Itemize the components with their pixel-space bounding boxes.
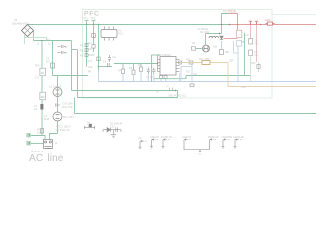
wire: blue link: [181, 66, 192, 68]
resistor R8: [132, 70, 135, 75]
svg-text:TP1: TP1: [83, 17, 88, 21]
wire: filter bottom: [53, 75, 89, 77]
wire: jog blue: [234, 41, 239, 53]
wire: TX loop green rise: [222, 14, 230, 25]
svg-text:RV2: RV2: [35, 65, 40, 68]
wire: D2 to output red: [224, 38, 238, 40]
capacitor C5: [108, 55, 111, 62]
wire: red column: [256, 25, 258, 63]
resistor R13: [192, 47, 196, 50]
svg-text:0R1: 0R1: [225, 51, 230, 54]
wire: red column 2: [250, 25, 252, 39]
svg-text:30: 30: [41, 71, 45, 75]
wire: filter link: [72, 49, 78, 51]
wire: pad L to plug: [31, 136, 45, 140]
wire: TX bottom stub: [221, 25, 223, 34]
resistor R12 orange: [202, 61, 210, 65]
wire: orange bus: [228, 86, 316, 88]
connector pad L: [26, 133, 30, 137]
svg-text:RLY: RLY: [119, 32, 124, 36]
svg-text:PFC: PFC: [84, 11, 100, 18]
wire: R9 blue stub: [140, 72, 142, 82]
wire: under-IC return: [154, 78, 186, 80]
test point TP1: [85, 21, 89, 25]
svg-text:PGND 0V: PGND 0V: [208, 136, 219, 139]
svg-text:R17: R17: [186, 71, 191, 74]
wire: gate bus: [114, 63, 158, 65]
svg-text:R20: R20: [186, 59, 191, 62]
wire: filter drop 1: [71, 41, 73, 91]
wire: output cap blue: [237, 46, 239, 82]
svg-text:J1: J1: [55, 141, 58, 145]
wire: tap horizontal: [99, 66, 113, 68]
wire: return jog: [185, 76, 187, 79]
resistor R5: [97, 57, 100, 61]
wire: main green DC rail: [27, 24, 230, 26]
svg-text:L2 2x6m8: L2 2x6m8: [49, 85, 62, 89]
power symbol GND3: [222, 136, 233, 148]
wire: orange drop: [227, 63, 229, 87]
wire: earth long horizontal: [75, 113, 317, 115]
AC inlet J1: [44, 140, 53, 149]
svg-text:1M: 1M: [88, 42, 91, 45]
power symbol GND1: [150, 136, 159, 148]
svg-text:4A: 4A: [34, 107, 37, 111]
capacitor C8 bulk: [249, 39, 260, 46]
svg-text:C6 C7: C6 C7: [146, 76, 153, 79]
wire: source blue: [221, 41, 223, 49]
svg-text:TP2: TP2: [91, 17, 96, 21]
wire: vcc column green: [98, 25, 100, 71]
wire: blue ground bus: [99, 81, 317, 83]
wire: filter left edge: [52, 41, 54, 76]
net tie NT1: [183, 136, 219, 156]
fuse F2 red: [266, 22, 275, 25]
svg-text:400V: 400V: [265, 18, 271, 22]
svg-text:C12: C12: [88, 66, 93, 69]
wire: Q1 source blue drop: [191, 64, 193, 84]
capacitor CX1: [58, 45, 67, 48]
node gate pin: [157, 63, 158, 64]
capacitor C9 bulk: [249, 50, 260, 57]
node boost junction: [219, 33, 221, 35]
wire: filter drop 2: [77, 50, 79, 98]
resistor R3: [85, 54, 88, 57]
svg-text:C10: C10: [110, 125, 115, 128]
PFC sheet box: [83, 10, 273, 99]
capacitor CX2: [58, 51, 67, 54]
wire: choke to plug: [50, 134, 58, 140]
test pad ticks: [170, 88, 173, 91]
svg-text:R15: R15: [251, 62, 256, 65]
ground symbol G1: [111, 130, 116, 138]
svg-text:NTC1 10D-9: NTC1 10D-9: [56, 125, 71, 129]
choke L3: [53, 112, 62, 121]
wire: R11 stub blue: [165, 79, 167, 82]
svg-text:RV1 275V: RV1 275V: [63, 116, 74, 119]
svg-text:4n7: 4n7: [88, 60, 93, 63]
node rail junctions: [86, 24, 87, 25]
fuse F1 body: [40, 104, 43, 110]
wire: pale bleed column: [250, 56, 252, 82]
inductor L5 body: [51, 63, 55, 68]
capacitor C14 tick: [56, 104, 61, 107]
wire: earth drop: [74, 98, 76, 114]
wire: U2 left rail: [157, 55, 159, 72]
wire: bridge out horizontal: [34, 40, 72, 42]
capacitor C7: [152, 68, 155, 75]
svg-text:GND PGND VCC: GND PGND VCC: [168, 94, 187, 97]
svg-text:R12 10R: R12 10R: [199, 57, 209, 61]
fuse F3 red box: [237, 30, 242, 37]
power symbol GND2: [162, 136, 173, 148]
diode D2: [220, 36, 224, 40]
svg-text:T1 PQ26: T1 PQ26: [223, 10, 236, 14]
resistor R22: [92, 45, 95, 49]
wire: R8 blue stub: [133, 75, 135, 82]
resistor R15: [257, 65, 260, 69]
svg-text:AC line: AC line: [29, 153, 64, 164]
capacitor CX3 body: [40, 92, 45, 100]
node red rail crossing: [237, 24, 239, 26]
resistor R4: [92, 34, 96, 38]
svg-text:GND 0V: GND 0V: [150, 136, 159, 139]
connector pad N: [26, 141, 30, 145]
fuse F4 blue box: [237, 41, 242, 47]
wire: R10 stub blue: [160, 79, 162, 82]
choke L2: [53, 88, 62, 97]
svg-text:4n7: 4n7: [46, 61, 51, 64]
bridge rectifier D1: [22, 25, 34, 37]
IC U1 optocoupler: [101, 27, 117, 41]
secondary sheet box top edge: [272, 14, 316, 16]
wire: sense divider column: [86, 25, 88, 67]
svg-text:+5V: +5V: [241, 85, 246, 89]
resistor R2: [85, 49, 88, 52]
wire: drain drop: [205, 34, 207, 45]
resistor R20 on orange: [189, 61, 193, 64]
wire: PE dashed stub: [31, 151, 43, 153]
wire: zcd green vertical: [244, 33, 246, 76]
node T on bridge wire: [41, 40, 43, 42]
test point TP2: [92, 21, 96, 25]
svg-text:PE: PE: [156, 91, 160, 94]
svg-text:68u: 68u: [255, 43, 260, 46]
wire: gate drive orange: [180, 62, 229, 64]
resistor R10: [160, 76, 163, 79]
wire: TX loop red half: [229, 14, 238, 31]
svg-text:Q1: Q1: [192, 41, 196, 45]
svg-text:D2 C3D: D2 C3D: [200, 30, 209, 34]
wire: pale divider column: [258, 62, 260, 72]
transistor Q1: [203, 45, 210, 52]
capacitor C4: [108, 63, 110, 67]
svg-text:GBU406 600V: GBU406 600V: [12, 22, 29, 26]
wire: U2 top stub: [152, 54, 161, 56]
svg-text:C11: C11: [193, 73, 198, 76]
svg-text:PE: PE: [139, 138, 143, 141]
capacitor C6: [147, 68, 150, 75]
resistor R1: [85, 44, 88, 47]
svg-text:10R: 10R: [37, 131, 42, 135]
inductor L4: [209, 36, 219, 38]
resistor R11: [164, 76, 167, 79]
node junction rail/TX: [229, 24, 231, 26]
wire: bridge + output down: [33, 31, 35, 41]
wire: blue stub A: [180, 67, 182, 82]
svg-text:1M: 1M: [88, 48, 91, 51]
svg-text:D1: D1: [14, 18, 18, 22]
wire: R7 blue stub: [122, 74, 124, 82]
svg-text:PGND 0V: PGND 0V: [162, 136, 173, 139]
resistor R17: [190, 84, 194, 87]
power flag VBUS: [255, 21, 258, 24]
svg-text:C2 100n X2: C2 100n X2: [56, 128, 70, 132]
svg-text:R14: R14: [213, 46, 218, 49]
svg-text:GND 0V: GND 0V: [183, 136, 192, 139]
resistor R14 sense: [220, 50, 224, 55]
thermistor RT1: [41, 129, 44, 134]
svg-text:10R: 10R: [229, 60, 234, 63]
node vcc tap: [98, 66, 99, 67]
wire: zcd return: [186, 75, 250, 77]
node red rail dots: [250, 24, 252, 26]
wire: N return horizontal: [72, 90, 178, 92]
node return junction: [175, 90, 177, 92]
svg-text:GNDA 0V: GNDA 0V: [234, 136, 245, 139]
wire: gate stub: [196, 48, 202, 50]
varistor RV2 body: [40, 68, 45, 76]
wire: U2 right blue stub: [179, 73, 181, 82]
wire: gate drop 3: [140, 64, 142, 68]
node TX rail junction: [221, 24, 222, 25]
wire: L return horizontal: [78, 97, 178, 99]
resistor R9: [140, 67, 143, 72]
svg-text:C13: C13: [35, 77, 40, 80]
wire: main red DC rail: [230, 24, 317, 26]
zener D4: [84, 126, 95, 129]
wire: gate drop 2: [133, 64, 135, 71]
wire: choke column: [57, 76, 59, 134]
net flag PE: [139, 138, 147, 149]
svg-text:6m8: 6m8: [44, 117, 50, 121]
wire: left long drop to AC: [41, 41, 43, 136]
power flag VCC: [249, 21, 252, 24]
diode D5 cluster: [103, 127, 121, 132]
resistor R19 on orange: [179, 61, 182, 64]
wire: boost node top: [206, 33, 222, 35]
wire: return link: [177, 91, 179, 98]
svg-text:68u: 68u: [255, 54, 260, 57]
IC U2 PFC controller: [158, 57, 180, 76]
wire: U2 left column: [151, 55, 153, 82]
wire: pad N lead: [31, 143, 44, 145]
wire: bridge AC faint links: [25, 35, 47, 44]
svg-text:R21 470k: R21 470k: [63, 106, 74, 109]
resistor R7: [122, 69, 125, 74]
wire: C7 stub blue: [153, 74, 155, 82]
wire: start resistor column: [93, 25, 95, 53]
wire: vcc blue drop: [98, 70, 100, 82]
wire: gate drop 1: [122, 64, 124, 70]
power symbol GND4: [234, 136, 245, 148]
wire: C6 stub blue: [147, 74, 149, 82]
svg-text:GNDPWR: GNDPWR: [222, 136, 233, 139]
